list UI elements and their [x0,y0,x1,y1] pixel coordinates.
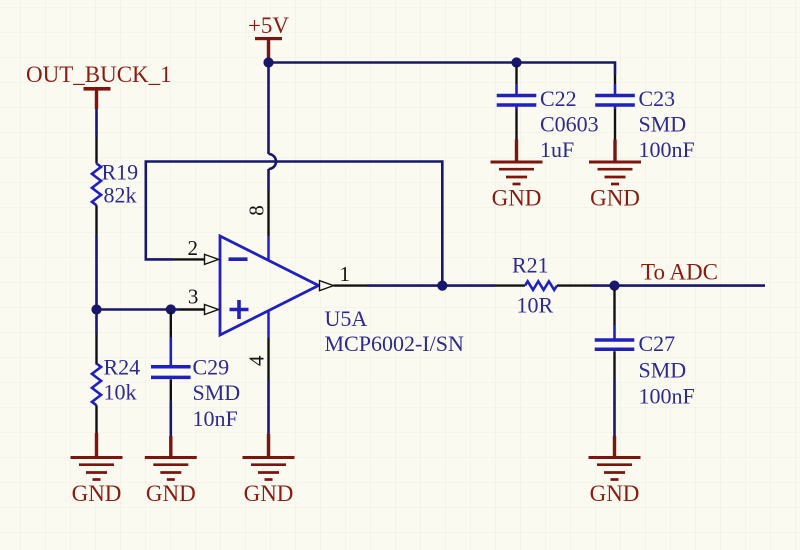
wire +5V down to op-amp pin 8 with hop [269,63,277,191]
ground under C27 [589,436,641,506]
capacitor C23 [595,75,635,140]
capacitor C27 [595,290,635,378]
svg-text:10R: 10R [517,293,554,318]
svg-text:C0603: C0603 [540,111,599,136]
wire C29 to pin 3 [171,308,179,311]
svg-text:MCP6002-I/SN: MCP6002-I/SN [325,331,464,356]
ground under C23 [589,140,641,211]
svg-text:R24: R24 [104,355,141,380]
wire R19 to divider node [95,235,98,310]
capacitor C22 [497,66,537,140]
svg-text:1uF: 1uF [540,137,574,162]
ground under C22 [491,140,543,211]
pin 8 [267,190,269,236]
wire node to R24 [95,310,98,335]
svg-text:4: 4 [245,355,269,366]
pin 2 [173,254,219,264]
svg-text:GND: GND [590,186,640,211]
wire output to junction [367,284,442,287]
svg-text:+5V: +5V [248,13,289,38]
svg-text:R19: R19 [102,160,139,185]
svg-text:GND: GND [492,186,542,211]
wire feedback loop [146,162,443,286]
junction at C22 [511,57,521,67]
svg-text:10nF: 10nF [193,406,238,431]
svg-text:GND: GND [590,481,640,506]
wire to ADC [615,284,766,287]
svg-text:3: 3 [188,285,199,309]
svg-text:2: 2 [188,236,199,260]
svg-text:SMD: SMD [639,111,687,136]
wire C27 to ground [613,377,616,437]
power port +5V [248,13,289,63]
resistor R24 [92,335,101,434]
svg-text:SMD: SMD [639,358,687,383]
svg-text:8: 8 [245,205,269,216]
junction at +5V [263,57,273,67]
capacitor C29 [151,312,191,438]
svg-text:1: 1 [340,262,351,286]
wire pin 4 to ground [267,380,270,434]
svg-text:100nF: 100nF [639,137,695,162]
op-amp U5A [220,236,319,335]
svg-text:10k: 10k [104,380,137,405]
wire R21 to junction [591,284,615,287]
ground under op-amp pin 4 [243,434,295,506]
wire +5V rail to C23 [269,63,616,76]
resistor R21 [495,281,591,290]
resistor R19 [92,137,101,235]
svg-text:R21: R21 [512,253,549,278]
junction at C27 [609,281,619,291]
svg-text:SMD: SMD [193,380,241,405]
wire junction to R21 [442,284,495,287]
svg-text:U5A: U5A [325,306,368,331]
svg-text:C27: C27 [639,331,676,356]
svg-text:100nF: 100nF [639,384,695,409]
ground under R24 [71,433,123,506]
junction divider node [91,304,101,314]
svg-text:GND: GND [72,481,122,506]
junction at output [437,281,447,291]
svg-text:C23: C23 [639,86,676,111]
pin 1 output [320,281,368,291]
svg-text:OUT_BUCK_1: OUT_BUCK_1 [26,62,172,87]
wire node to C29 [97,308,171,311]
junction at C29 [166,304,176,314]
svg-text:GND: GND [146,481,196,506]
svg-text:C22: C22 [540,86,577,111]
svg-text:To ADC: To ADC [641,260,718,285]
ground under C29 [145,436,197,506]
wire OUT_BUCK_1 to R19 [95,109,98,137]
net label OUT_BUCK_1 [26,62,172,109]
svg-text:C29: C29 [193,355,230,380]
pin 4 [267,310,270,338]
svg-text:82k: 82k [104,183,137,208]
svg-text:GND: GND [244,481,294,506]
pin 3 [179,305,219,315]
